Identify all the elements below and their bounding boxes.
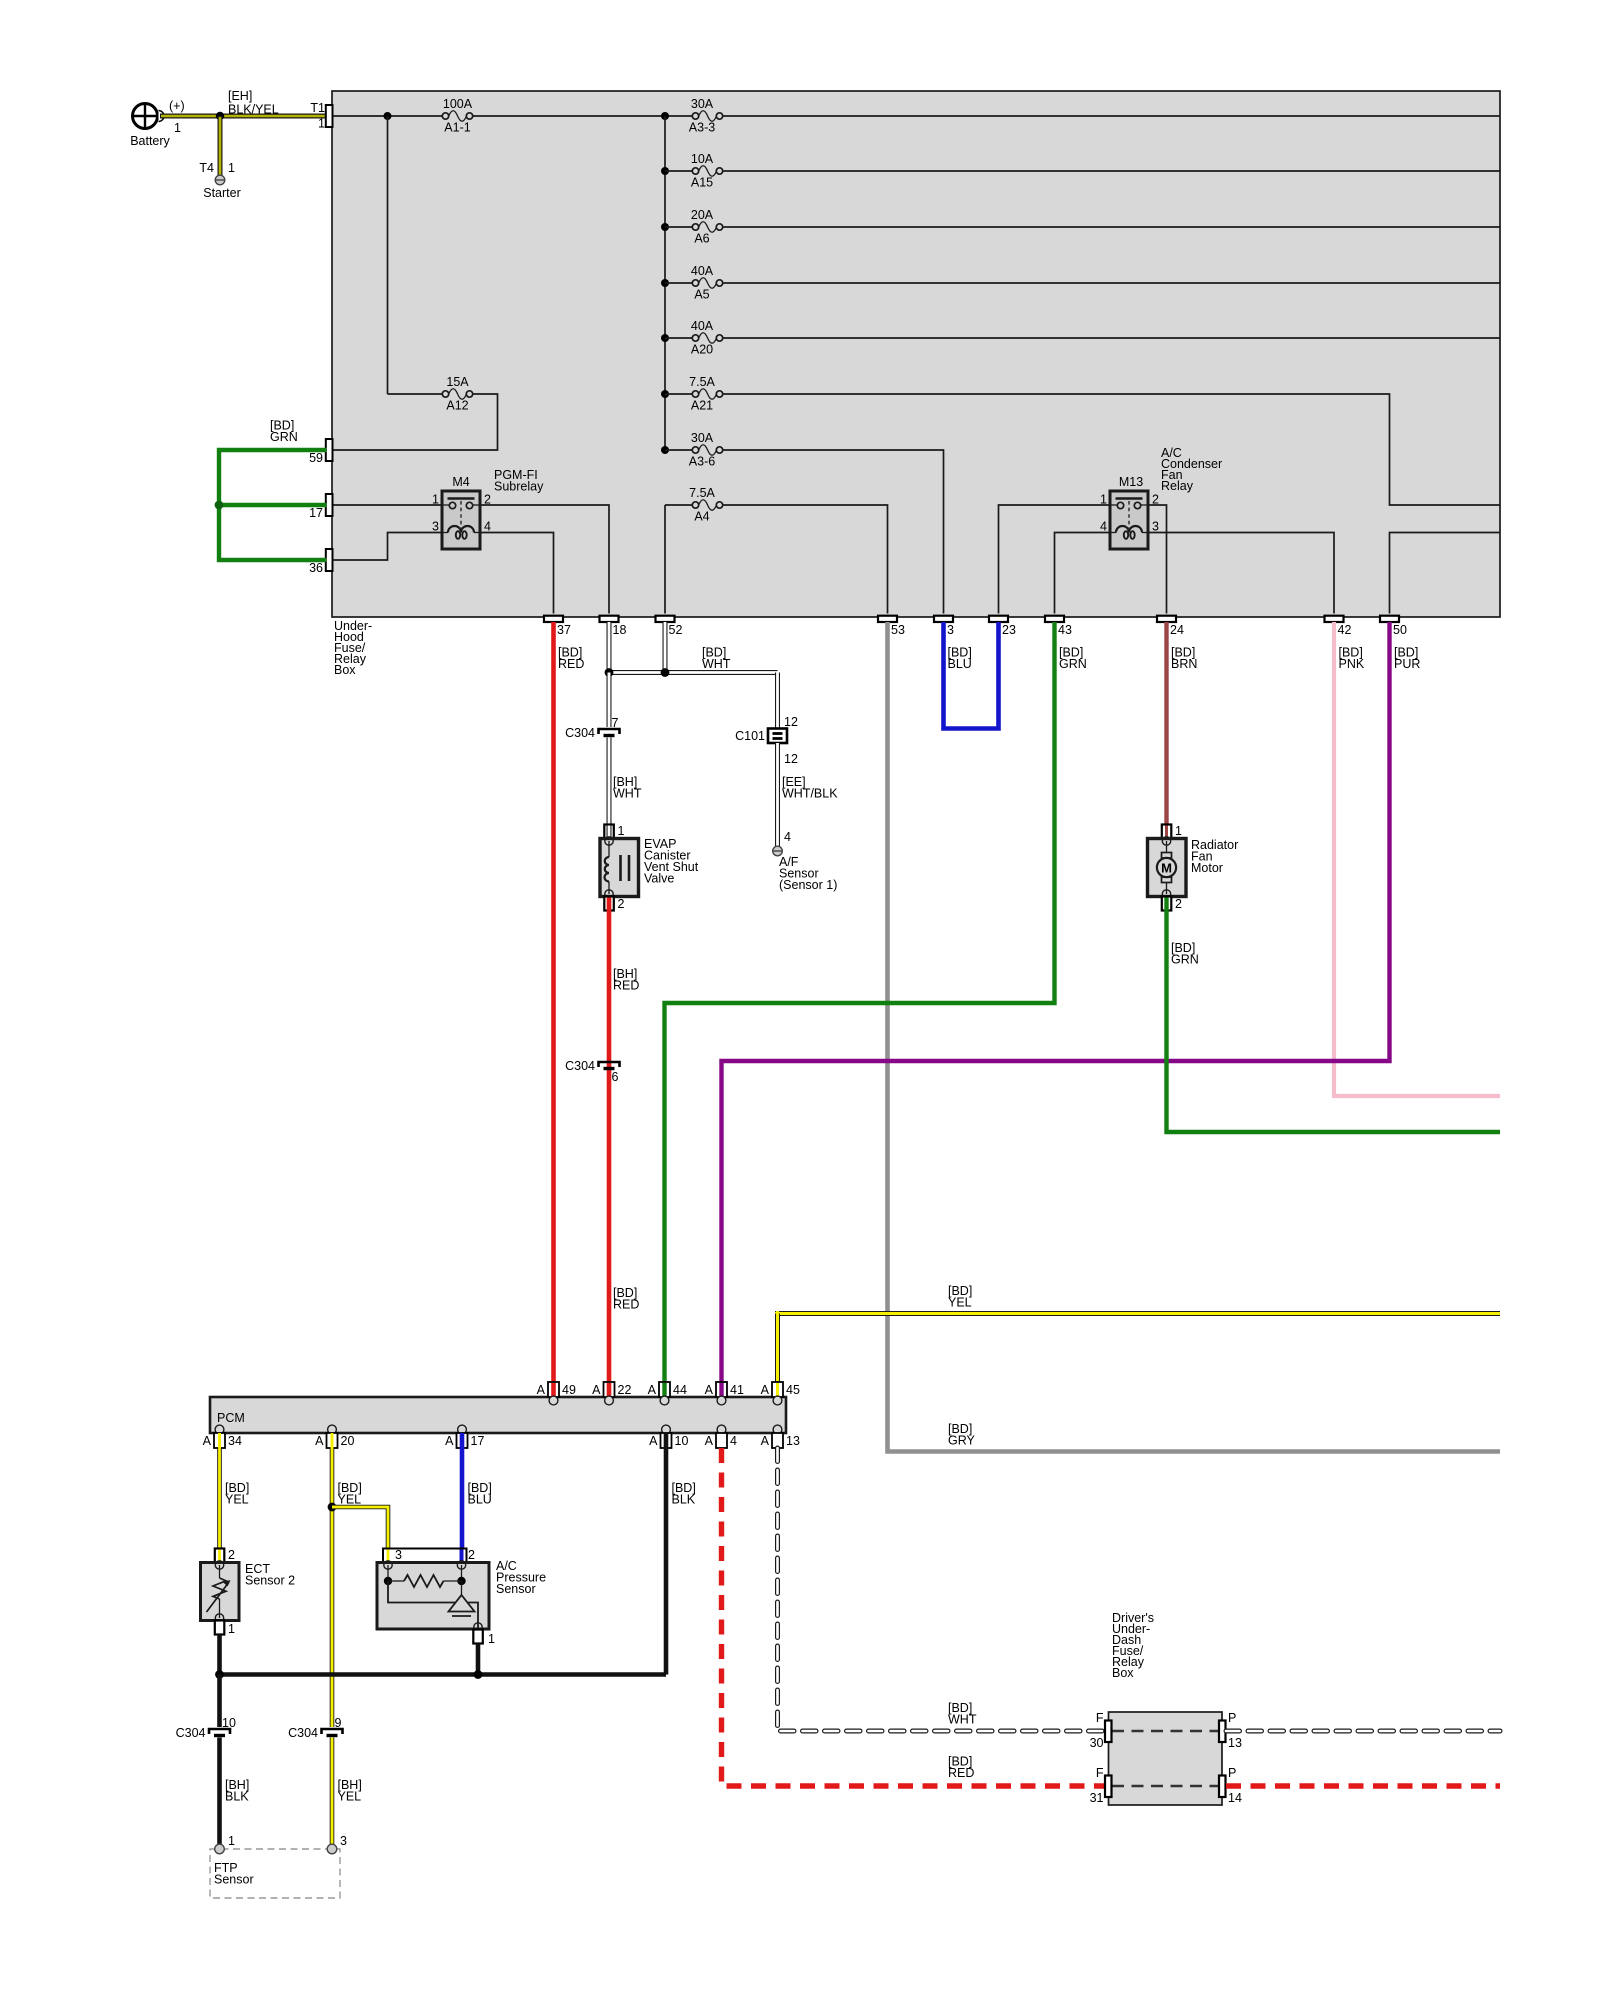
wire [BD] WHT terminal 52 down <box>663 622 668 673</box>
svg-text:1: 1 <box>488 1632 495 1646</box>
svg-text:WHT: WHT <box>948 1713 977 1727</box>
svg-text:1: 1 <box>228 161 235 175</box>
Driver's Under-Dash Fuse/Relay Box <box>1109 1611 1223 1805</box>
svg-text:53: 53 <box>891 623 905 637</box>
svg-text:34: 34 <box>228 1434 242 1448</box>
fuse 7.5A A21 <box>661 375 723 413</box>
A/F Sensor (Sensor 1) terminal <box>773 830 838 892</box>
wire black A/C pressure pin 1 to ground bus <box>476 1644 481 1675</box>
svg-text:7.5A: 7.5A <box>689 375 715 389</box>
svg-text:3: 3 <box>395 1548 402 1562</box>
svg-text:RED: RED <box>613 979 639 993</box>
svg-text:A: A <box>592 1383 601 1397</box>
wire [BD] GRN loop terminals 59-17-36 <box>215 419 327 561</box>
wire [BD] BRN terminal 24 to fan motor <box>1167 622 1198 826</box>
svg-text:44: 44 <box>673 1383 687 1397</box>
wire dashed RED P14 to right edge <box>1226 1783 1500 1788</box>
wire [BH] BLK to FTP sensor pin 1 <box>220 1738 250 1846</box>
svg-text:F: F <box>1096 1711 1104 1725</box>
svg-text:13: 13 <box>786 1434 800 1448</box>
svg-text:A: A <box>445 1434 454 1448</box>
wire [EH] BLK/YEL battery to T1 <box>160 89 330 117</box>
svg-text:3: 3 <box>947 623 954 637</box>
fuse 20A A6 <box>661 208 1500 246</box>
wire: A4 output to terminal 53 <box>723 505 888 614</box>
wire [BD] YEL PCM A20 down <box>332 1448 362 1727</box>
terminal 3 <box>934 616 954 637</box>
svg-text:A3-6: A3-6 <box>689 455 715 469</box>
svg-text:1: 1 <box>618 824 625 838</box>
wire [EE] WHT/BLK to A/F sensor <box>778 743 839 847</box>
PCM pin A20 <box>315 1425 354 1448</box>
wire [BD] BLU PCM A17 to A/C pressure sensor pin 2 <box>462 1448 492 1550</box>
svg-text:12: 12 <box>784 752 798 766</box>
svg-text:YEL: YEL <box>338 1493 362 1507</box>
ECT Sensor 2 <box>201 1548 296 1636</box>
svg-text:GRN: GRN <box>1171 953 1199 967</box>
svg-text:6: 6 <box>612 1070 619 1084</box>
junction battery/starter <box>216 112 224 120</box>
wire [BD] PUR terminal 50 to PCM A41 <box>722 622 1421 1400</box>
PCM pin A22 <box>592 1382 631 1405</box>
svg-text:30A: 30A <box>691 431 714 445</box>
PCM pin A44 <box>648 1382 687 1405</box>
svg-text:BLU: BLU <box>948 657 972 671</box>
svg-text:YEL: YEL <box>948 1296 972 1310</box>
svg-text:PCM: PCM <box>217 1411 245 1425</box>
relay M4 PGM-FI Subrelay <box>432 468 544 549</box>
svg-text:3: 3 <box>1152 520 1159 534</box>
wire black ground bus <box>220 1672 667 1677</box>
wire black down to C304 pin 10 <box>217 1675 222 1728</box>
fuse 40A A5 <box>661 264 1500 302</box>
PCM pin A49 <box>537 1382 576 1405</box>
svg-text:BRN: BRN <box>1171 657 1197 671</box>
svg-text:37: 37 <box>557 623 571 637</box>
fuse 10A A15 <box>661 152 1500 190</box>
node white wire junction 18 <box>605 668 614 677</box>
terminal F30 <box>1090 1711 1112 1750</box>
terminal 52 <box>656 616 683 637</box>
svg-text:BLU: BLU <box>468 1493 492 1507</box>
svg-text:WHT: WHT <box>613 787 642 801</box>
svg-text:18: 18 <box>613 623 627 637</box>
terminal 17 <box>309 494 332 520</box>
wire: M4 pin 4 to terminal 37 <box>480 533 554 614</box>
wire yellow branch to A/C pressure sensor pin 3 <box>332 1507 388 1550</box>
svg-text:C304: C304 <box>176 1726 206 1740</box>
fuse 40A A20 <box>661 319 1500 357</box>
svg-text:41: 41 <box>730 1383 744 1397</box>
Under-Hood Fuse/Relay Box <box>332 91 1500 617</box>
svg-text:10A: 10A <box>691 152 714 166</box>
svg-text:BLK: BLK <box>672 1493 696 1507</box>
node ground bus right <box>474 1670 483 1679</box>
svg-text:42: 42 <box>1338 623 1352 637</box>
svg-text:14: 14 <box>1228 1791 1242 1805</box>
wire: M13 pin 2 to terminal 24 <box>1148 505 1167 614</box>
wire: M4 pin 3 to terminal 36 <box>333 533 442 561</box>
Radiator Fan Motor <box>1148 824 1239 911</box>
svg-text:A21: A21 <box>691 399 713 413</box>
terminal 53 <box>878 616 905 637</box>
terminal 18 <box>600 616 627 637</box>
svg-text:RED: RED <box>558 657 584 671</box>
svg-text:30: 30 <box>1090 1736 1104 1750</box>
svg-text:4: 4 <box>730 1434 737 1448</box>
wire [BD] WHT dashed PCM A13 to F30 <box>778 1448 1106 1731</box>
PCM <box>210 1397 786 1433</box>
FTP Sensor <box>210 1834 347 1898</box>
terminal 36 <box>309 549 332 575</box>
wire: M4 pin 2 to terminal 18 <box>480 505 609 614</box>
svg-text:30A: 30A <box>691 97 714 111</box>
wire [BD] PNK terminal 42 <box>1334 622 1500 1096</box>
svg-text:A5: A5 <box>694 288 709 302</box>
wire [BD] BLU terminals 3-23 <box>944 622 999 729</box>
terminal 59 <box>309 439 332 465</box>
PCM pin A4 <box>705 1425 737 1448</box>
svg-text:M13: M13 <box>1119 475 1143 489</box>
wire [BD] BLK PCM A10 down <box>666 1448 696 1675</box>
fuse 100A A1-1 <box>442 97 472 135</box>
svg-text:A6: A6 <box>694 232 709 246</box>
svg-text:C304: C304 <box>288 1726 318 1740</box>
wire black ECT pin 1 to ground bus <box>217 1635 222 1675</box>
terminal 24 <box>1157 616 1184 637</box>
PCM pin A10 <box>649 1425 688 1448</box>
node white wire junction 52 <box>661 668 670 677</box>
svg-text:A1-1: A1-1 <box>444 121 470 135</box>
svg-text:Sensor 2: Sensor 2 <box>245 1574 295 1588</box>
terminal P14 <box>1219 1766 1242 1805</box>
svg-text:RED: RED <box>613 1298 639 1312</box>
svg-text:WHT: WHT <box>702 657 731 671</box>
terminal 37 <box>544 616 571 637</box>
svg-text:52: 52 <box>669 623 683 637</box>
wire red EVAP pin 2 through C304 pin 6 to PCM A22 <box>609 898 639 1401</box>
svg-text:A: A <box>537 1383 546 1397</box>
svg-text:10: 10 <box>222 1716 236 1730</box>
wire: A4 left lead down to terminal 52 <box>664 505 666 614</box>
svg-text:PUR: PUR <box>1394 657 1420 671</box>
svg-text:1: 1 <box>228 1622 235 1636</box>
terminal 50 <box>1380 616 1407 637</box>
wire: fuse bus vertical <box>664 116 666 450</box>
svg-text:C304: C304 <box>565 1059 595 1073</box>
connector C304 pin 10 <box>176 1716 236 1740</box>
svg-text:C101: C101 <box>735 729 765 743</box>
wire [BD] WHT terminal 18 down <box>607 622 612 673</box>
svg-text:1: 1 <box>228 1834 235 1848</box>
svg-text:BLK: BLK <box>225 1790 249 1804</box>
svg-text:1: 1 <box>318 117 325 131</box>
svg-text:A: A <box>761 1434 770 1448</box>
svg-text:2: 2 <box>1175 897 1182 911</box>
svg-text:BLK/YEL: BLK/YEL <box>228 103 279 117</box>
A/C Pressure Sensor <box>377 1548 546 1646</box>
terminal P13 <box>1219 1711 1242 1750</box>
wire white down to C304 pin 7 <box>607 673 612 728</box>
svg-text:Box: Box <box>1112 1666 1134 1680</box>
terminal F31 <box>1090 1766 1112 1805</box>
svg-text:3: 3 <box>432 520 439 534</box>
fuse 30A A3-6 <box>661 431 723 469</box>
svg-text:Box: Box <box>334 663 356 677</box>
wire [BH] YEL to FTP sensor pin 3 <box>332 1738 362 1846</box>
svg-text:43: 43 <box>1058 623 1072 637</box>
svg-text:13: 13 <box>1228 1736 1242 1750</box>
wire: M13 pin 1 to terminal 23 <box>999 505 1111 614</box>
terminal 43 <box>1045 616 1072 637</box>
svg-text:A: A <box>705 1383 714 1397</box>
svg-text:(+): (+) <box>169 99 185 113</box>
svg-text:2: 2 <box>228 1548 235 1562</box>
dashed link F30-P13 inside box <box>1112 1730 1219 1733</box>
svg-text:4: 4 <box>784 830 791 844</box>
svg-text:59: 59 <box>309 451 323 465</box>
svg-text:P: P <box>1228 1766 1236 1780</box>
svg-text:40A: 40A <box>691 264 714 278</box>
svg-text:A3-3: A3-3 <box>689 121 715 135</box>
svg-text:GRN: GRN <box>1059 657 1087 671</box>
svg-text:A15: A15 <box>691 176 713 190</box>
svg-text:M4: M4 <box>452 475 469 489</box>
PCM pin A17 <box>445 1425 484 1448</box>
svg-text:A: A <box>203 1434 212 1448</box>
starter <box>203 175 241 200</box>
svg-text:17: 17 <box>471 1434 485 1448</box>
node: branch to A12 <box>384 112 392 120</box>
wire [BD] GRY terminal 53 <box>888 622 1501 1452</box>
svg-text:31: 31 <box>1090 1791 1104 1805</box>
wire dashed WHT P13 to right edge <box>1226 1729 1500 1734</box>
svg-text:Battery: Battery <box>130 134 170 148</box>
svg-text:7: 7 <box>612 716 619 730</box>
EVAP Canister Vent Shut Valve <box>600 824 699 911</box>
svg-text:15A: 15A <box>446 375 469 389</box>
PCM pin A34 <box>203 1425 242 1448</box>
wire: A12 output to terminal 59 <box>333 394 498 450</box>
node yellow branch <box>328 1503 337 1512</box>
wire T4 to starter <box>199 116 235 175</box>
wire [BD] WHT joining run <box>609 646 778 673</box>
svg-text:2: 2 <box>618 897 625 911</box>
svg-text:A20: A20 <box>691 343 713 357</box>
wire white to C101 <box>775 673 780 729</box>
svg-text:YEL: YEL <box>225 1493 249 1507</box>
svg-text:4: 4 <box>1100 520 1107 534</box>
svg-text:A4: A4 <box>694 510 709 524</box>
wire: branch down to fuse A12 <box>387 116 389 394</box>
svg-text:GRY: GRY <box>948 1434 976 1448</box>
wire [BD] GRN fan motor pin 2 to right edge <box>1167 898 1501 1133</box>
svg-text:A: A <box>761 1383 770 1397</box>
svg-text:GRN: GRN <box>270 430 298 444</box>
wire [BD] GRN terminal 43 to PCM A44 <box>665 622 1087 1400</box>
wire: main feed row y=116 <box>333 115 1500 117</box>
fuse 30A A3-3 <box>689 97 723 135</box>
svg-text:49: 49 <box>562 1383 576 1397</box>
svg-text:24: 24 <box>1170 623 1184 637</box>
wire [BD] RED terminal 37 to PCM A49 <box>554 622 585 1400</box>
svg-text:45: 45 <box>786 1383 800 1397</box>
svg-text:A: A <box>648 1383 657 1397</box>
svg-text:Motor: Motor <box>1191 861 1223 875</box>
svg-text:[EH]: [EH] <box>228 89 252 103</box>
relay M13 A/C Condenser Fan Relay <box>1100 446 1222 549</box>
svg-text:P: P <box>1228 1711 1236 1725</box>
svg-text:F: F <box>1096 1766 1104 1780</box>
svg-text:RED: RED <box>948 1766 974 1780</box>
fuse 7.5A A4 <box>665 486 723 524</box>
wire [BH] WHT to EVAP pin 1 <box>609 738 642 827</box>
terminal T1 <box>310 101 332 131</box>
svg-text:40A: 40A <box>691 319 714 333</box>
svg-text:Relay: Relay <box>1161 479 1194 493</box>
svg-text:50: 50 <box>1393 623 1407 637</box>
svg-text:A: A <box>705 1434 714 1448</box>
wire [BD] RED dashed PCM A4 to F31 <box>722 1448 1106 1786</box>
terminal 23 <box>989 616 1016 637</box>
svg-text:22: 22 <box>618 1383 632 1397</box>
PCM pin A13 <box>761 1425 800 1448</box>
svg-text:100A: 100A <box>443 97 473 111</box>
svg-text:10: 10 <box>675 1434 689 1448</box>
fuse 15A A12 <box>388 375 473 413</box>
svg-text:C304: C304 <box>565 726 595 740</box>
wire: right edge feed to terminal 50 <box>1390 533 1501 614</box>
svg-text:(Sensor 1): (Sensor 1) <box>779 878 837 892</box>
svg-text:YEL: YEL <box>338 1790 362 1804</box>
svg-text:23: 23 <box>1002 623 1016 637</box>
svg-text:A: A <box>315 1434 324 1448</box>
svg-text:36: 36 <box>309 561 323 575</box>
connector C101 pin 12/12 <box>735 715 798 766</box>
svg-text:3: 3 <box>340 1834 347 1848</box>
PCM pin A45 <box>761 1382 800 1405</box>
svg-text:Subrelay: Subrelay <box>494 480 544 494</box>
wire [BD] YEL right edge to PCM A45 <box>775 1284 1500 1400</box>
battery <box>130 99 184 148</box>
svg-text:Sensor: Sensor <box>496 1582 536 1596</box>
svg-text:T4: T4 <box>199 161 214 175</box>
svg-text:20: 20 <box>341 1434 355 1448</box>
svg-text:Starter: Starter <box>203 186 241 200</box>
wire [BD] YEL PCM A34 to ECT sensor 2 <box>220 1448 250 1550</box>
node ground bus left <box>215 1670 224 1679</box>
connector C304 pin 9 <box>288 1716 342 1740</box>
svg-text:12: 12 <box>784 715 798 729</box>
svg-text:7.5A: 7.5A <box>689 486 715 500</box>
svg-text:4: 4 <box>484 520 491 534</box>
dashed link F31-P14 inside box <box>1112 1785 1219 1788</box>
svg-text:A: A <box>649 1434 658 1448</box>
wire: M13 pin 3 to terminal 42 <box>1148 533 1334 614</box>
wire: A3-6 output to terminal 3 <box>723 450 944 614</box>
connector C304 pin 7 <box>565 716 619 740</box>
wire: A21 output to right edge <box>723 394 1500 505</box>
wire: M13 pin 4 to terminal 43 <box>1055 533 1111 614</box>
svg-text:1: 1 <box>174 121 181 135</box>
Under-Hood Fuse/Relay Box label <box>334 619 372 677</box>
svg-text:17: 17 <box>309 506 323 520</box>
svg-text:WHT/BLK: WHT/BLK <box>782 787 838 801</box>
svg-text:20A: 20A <box>691 208 714 222</box>
svg-text:A12: A12 <box>446 399 468 413</box>
connector C304 pin 6 <box>565 1059 619 1084</box>
svg-text:1: 1 <box>1175 824 1182 838</box>
wire: M4 pin 1 to terminal 17 <box>333 504 442 506</box>
svg-text:2: 2 <box>468 1548 475 1562</box>
svg-text:Sensor: Sensor <box>214 1873 254 1887</box>
terminal 42 <box>1325 616 1352 637</box>
svg-text:M: M <box>1161 861 1172 876</box>
svg-text:T1: T1 <box>310 101 325 115</box>
svg-text:9: 9 <box>335 1716 342 1730</box>
svg-text:PNK: PNK <box>1339 657 1365 671</box>
PCM pin A41 <box>705 1382 744 1405</box>
svg-text:Valve: Valve <box>644 872 674 886</box>
node: bus tap <box>661 112 669 120</box>
